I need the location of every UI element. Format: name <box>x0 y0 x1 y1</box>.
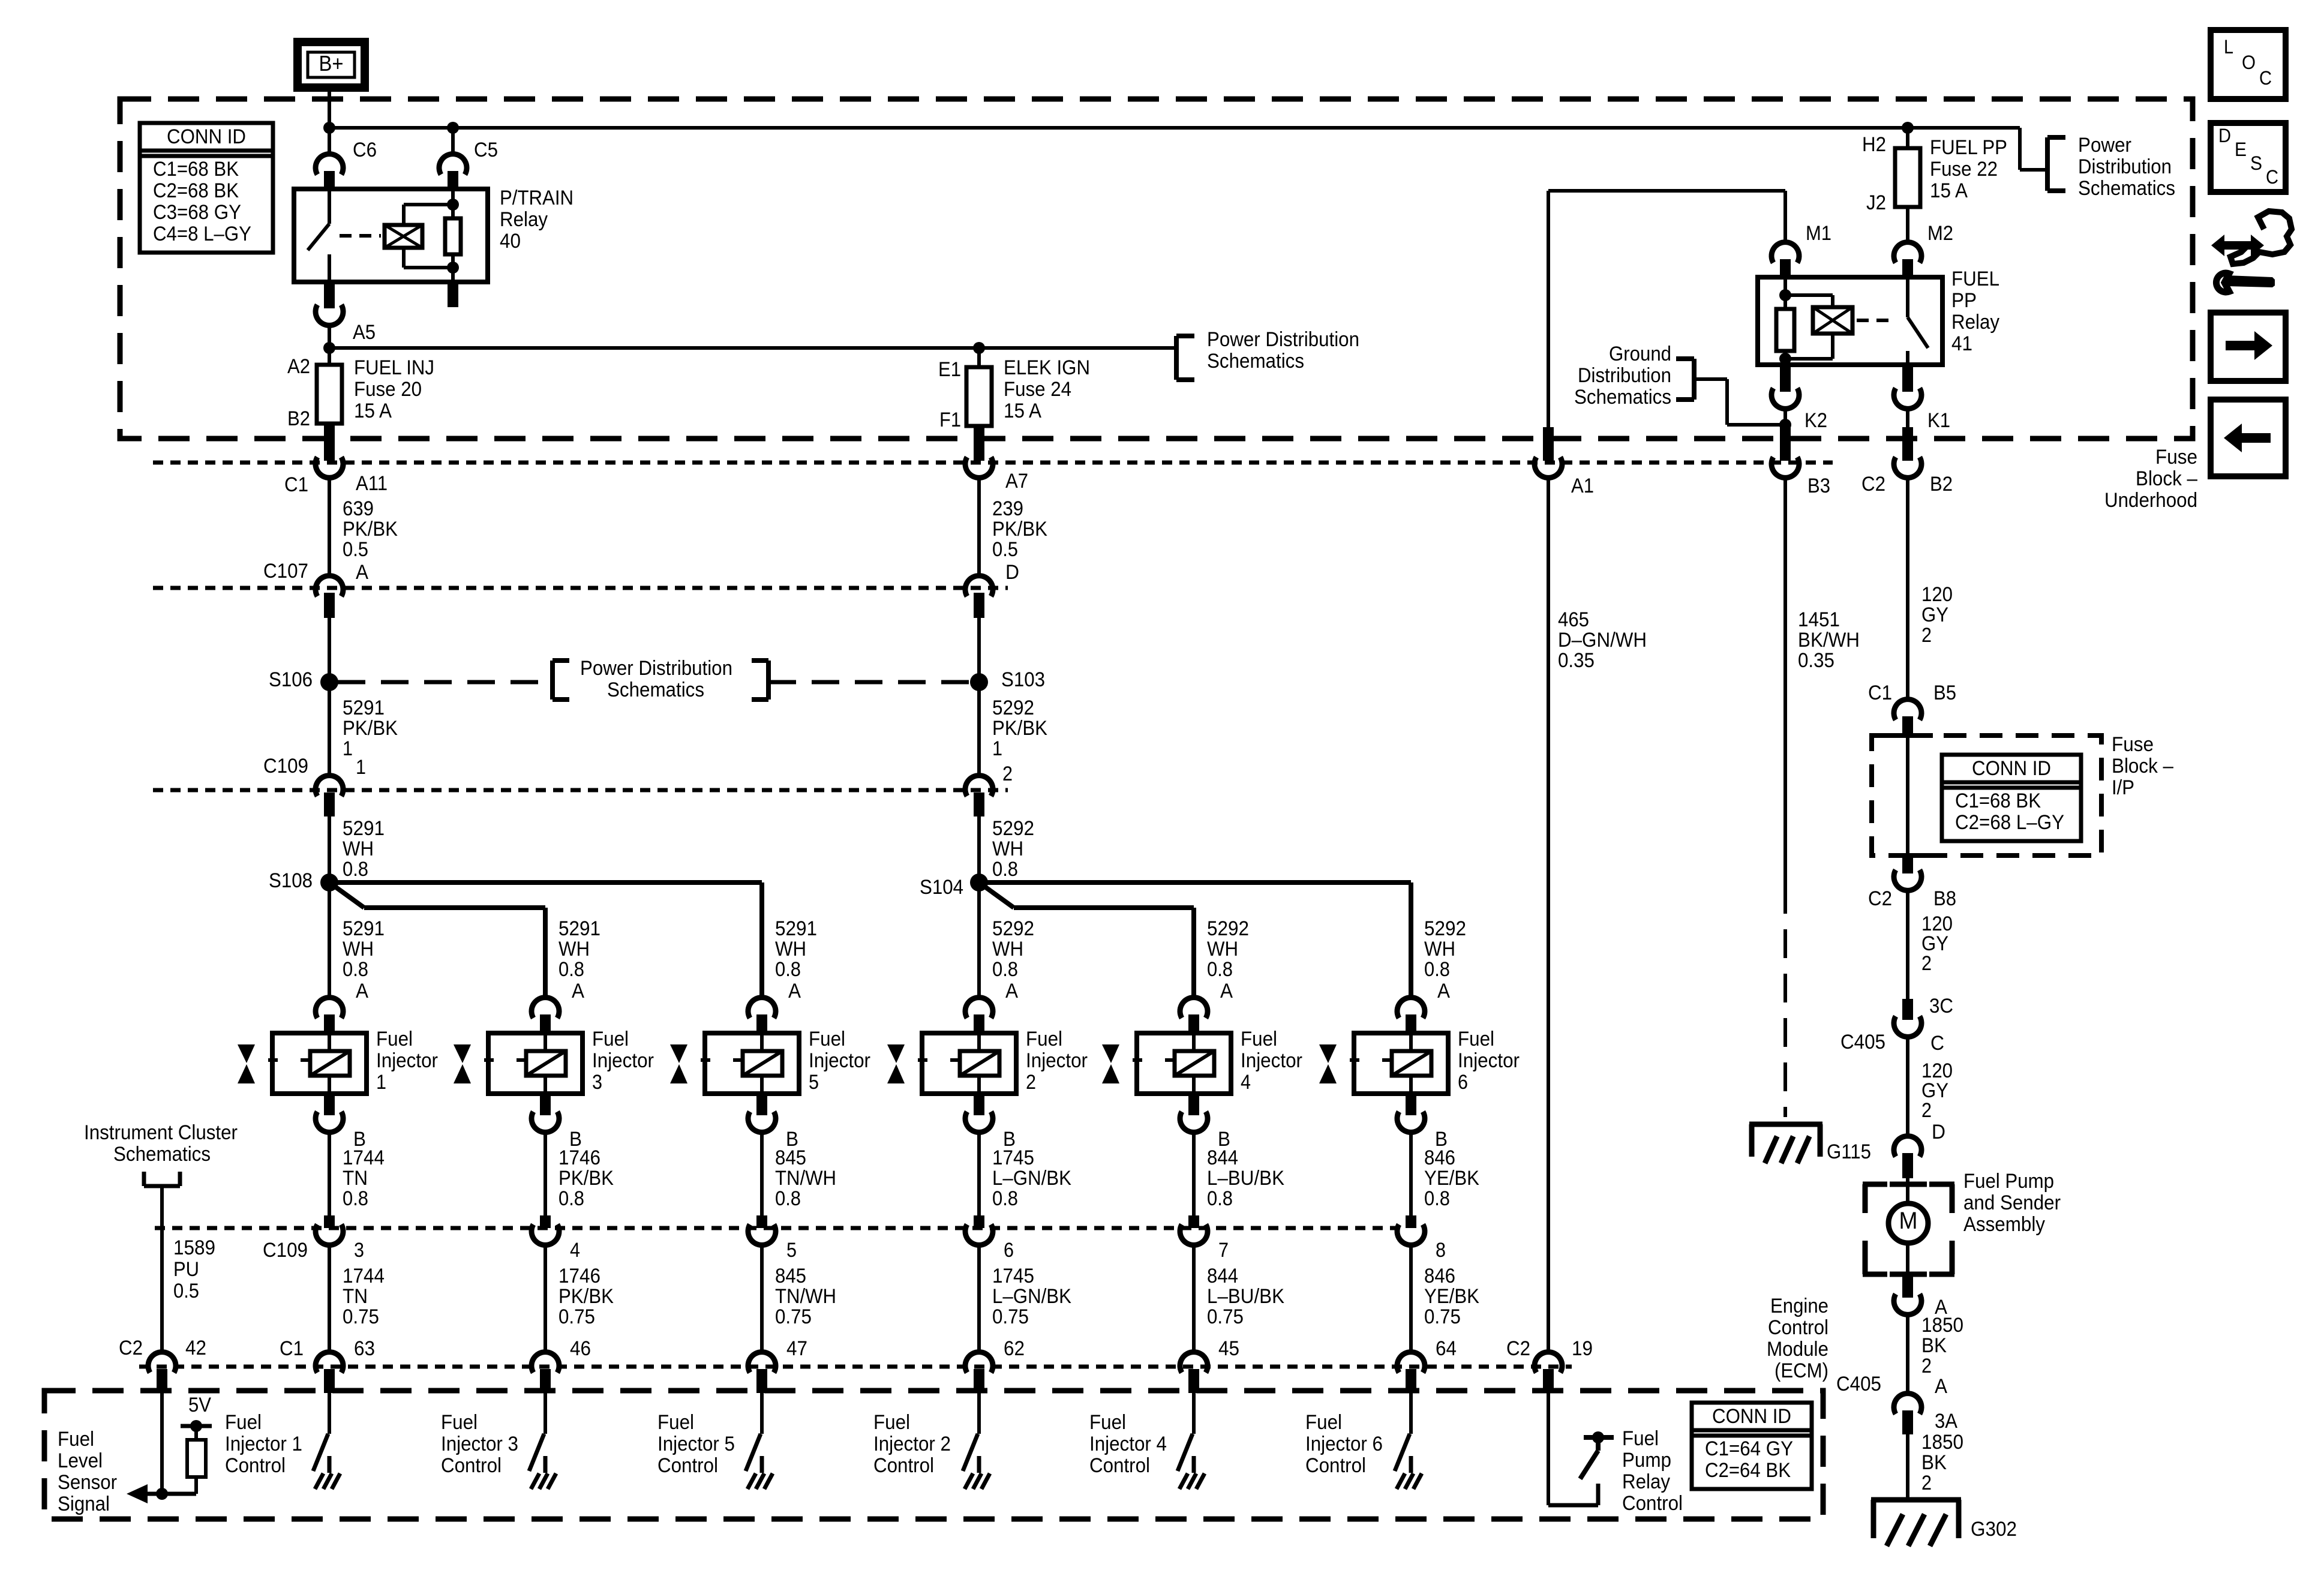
svg-text:0.8: 0.8 <box>343 1187 368 1210</box>
svg-text:C107: C107 <box>263 560 308 583</box>
svg-text:5291: 5291 <box>559 917 600 940</box>
svg-text:15 A: 15 A <box>1930 179 1968 202</box>
svg-text:D: D <box>1932 1121 1945 1143</box>
svg-text:O: O <box>2242 52 2256 73</box>
svg-text:Relay: Relay <box>1622 1470 1670 1493</box>
svg-text:0.8: 0.8 <box>1424 1187 1450 1210</box>
svg-text:Injector: Injector <box>376 1049 438 1072</box>
svg-text:Control: Control <box>1305 1454 1366 1477</box>
svg-text:FUEL INJ: FUEL INJ <box>354 356 434 379</box>
svg-text:S: S <box>2250 152 2262 174</box>
svg-text:Control: Control <box>441 1454 502 1477</box>
svg-text:1744: 1744 <box>343 1146 385 1169</box>
svg-text:PP: PP <box>1951 289 1977 312</box>
svg-text:M2: M2 <box>1927 222 1953 245</box>
svg-text:Schematics: Schematics <box>607 679 704 701</box>
svg-text:0.8: 0.8 <box>559 1187 584 1210</box>
svg-text:I/P: I/P <box>2112 776 2134 799</box>
svg-text:3: 3 <box>354 1239 364 1262</box>
svg-text:ELEK IGN: ELEK IGN <box>1004 356 1090 379</box>
svg-text:0.8: 0.8 <box>1207 958 1233 981</box>
svg-text:Engine: Engine <box>1770 1295 1828 1317</box>
svg-text:Control: Control <box>873 1454 934 1477</box>
svg-text:7: 7 <box>1218 1239 1229 1262</box>
svg-text:5: 5 <box>786 1239 797 1262</box>
svg-text:A: A <box>1220 980 1233 1002</box>
svg-text:844: 844 <box>1207 1265 1238 1287</box>
svg-text:Fuel: Fuel <box>1089 1411 1126 1434</box>
svg-text:1589: 1589 <box>173 1236 215 1259</box>
svg-text:P/TRAIN: P/TRAIN <box>500 187 574 209</box>
svg-text:Injector 3: Injector 3 <box>441 1433 518 1455</box>
svg-text:Schematics: Schematics <box>2078 177 2175 200</box>
svg-text:C1=64 GY: C1=64 GY <box>1705 1437 1793 1460</box>
svg-text:A11: A11 <box>356 472 388 495</box>
svg-text:19: 19 <box>1572 1337 1593 1360</box>
svg-text:S103: S103 <box>1001 668 1045 691</box>
svg-text:Injector: Injector <box>809 1049 870 1072</box>
svg-text:Injector: Injector <box>1241 1049 1302 1072</box>
svg-text:5291: 5291 <box>343 697 385 719</box>
svg-text:C: C <box>2266 166 2278 188</box>
svg-text:0.5: 0.5 <box>343 538 368 561</box>
svg-text:C1: C1 <box>1868 682 1892 704</box>
svg-text:45: 45 <box>1218 1337 1239 1360</box>
svg-text:Fuel: Fuel <box>58 1428 94 1451</box>
svg-text:C5: C5 <box>474 139 498 161</box>
svg-text:TN/WH: TN/WH <box>775 1167 836 1190</box>
svg-text:41: 41 <box>1951 332 1972 355</box>
svg-text:0.75: 0.75 <box>992 1305 1029 1328</box>
svg-text:C2: C2 <box>1506 1337 1530 1360</box>
svg-text:0.75: 0.75 <box>775 1305 812 1328</box>
svg-text:Control: Control <box>1768 1316 1828 1339</box>
svg-text:K1: K1 <box>1927 409 1950 432</box>
svg-text:5292: 5292 <box>1207 917 1249 940</box>
svg-text:Power Distribution: Power Distribution <box>1207 328 1359 351</box>
svg-text:2: 2 <box>1921 1099 1932 1122</box>
svg-text:40: 40 <box>500 230 521 253</box>
svg-text:15 A: 15 A <box>1004 400 1041 422</box>
svg-text:C109: C109 <box>263 1239 308 1262</box>
svg-text:G302: G302 <box>1971 1518 2017 1541</box>
svg-text:E: E <box>2235 139 2247 160</box>
svg-text:K2: K2 <box>1804 409 1827 432</box>
svg-text:0.8: 0.8 <box>992 958 1018 981</box>
svg-text:Fuel: Fuel <box>809 1028 845 1050</box>
svg-text:846: 846 <box>1424 1265 1455 1287</box>
svg-text:M1: M1 <box>1806 222 1831 245</box>
svg-text:120: 120 <box>1921 583 1953 606</box>
svg-text:6: 6 <box>1458 1071 1468 1094</box>
svg-text:844: 844 <box>1207 1146 1238 1169</box>
svg-text:WH: WH <box>992 837 1023 860</box>
svg-text:Block –: Block – <box>2112 755 2173 778</box>
svg-text:0.35: 0.35 <box>1558 649 1595 672</box>
svg-text:Fuel: Fuel <box>225 1411 262 1434</box>
svg-text:WH: WH <box>1424 938 1455 960</box>
svg-text:TN: TN <box>343 1285 368 1308</box>
svg-text:2: 2 <box>1921 624 1932 647</box>
svg-text:FUEL: FUEL <box>1951 268 1999 290</box>
svg-text:Distribution: Distribution <box>1578 364 1671 387</box>
svg-text:Pump: Pump <box>1622 1449 1671 1472</box>
svg-text:C109: C109 <box>263 755 308 778</box>
svg-text:846: 846 <box>1424 1146 1455 1169</box>
svg-text:L–BU/BK: L–BU/BK <box>1207 1285 1284 1308</box>
svg-text:H2: H2 <box>1862 133 1886 156</box>
svg-text:A: A <box>788 980 801 1002</box>
svg-text:1850: 1850 <box>1921 1431 1963 1454</box>
svg-text:YE/BK: YE/BK <box>1424 1167 1479 1190</box>
svg-text:1745: 1745 <box>992 1146 1034 1169</box>
svg-text:C1=68 BK: C1=68 BK <box>1955 789 2041 812</box>
svg-text:42: 42 <box>185 1337 206 1359</box>
svg-text:WH: WH <box>559 938 590 960</box>
svg-text:0.8: 0.8 <box>992 1187 1018 1210</box>
svg-text:C1=68 BK: C1=68 BK <box>153 158 239 181</box>
svg-text:Injector 1: Injector 1 <box>225 1433 302 1455</box>
svg-text:S106: S106 <box>269 668 313 691</box>
svg-text:3A: 3A <box>1935 1410 1957 1433</box>
svg-text:J2: J2 <box>1866 191 1886 214</box>
svg-text:WH: WH <box>343 837 374 860</box>
svg-text:2: 2 <box>1002 763 1013 785</box>
svg-text:S108: S108 <box>269 869 313 892</box>
svg-text:239: 239 <box>992 497 1023 520</box>
svg-text:CONN ID: CONN ID <box>167 125 246 148</box>
svg-text:Fuel: Fuel <box>376 1028 413 1050</box>
svg-text:Distribution: Distribution <box>2078 155 2172 178</box>
svg-text:Signal: Signal <box>58 1493 110 1515</box>
svg-text:0.5: 0.5 <box>173 1280 199 1302</box>
svg-text:E1: E1 <box>938 358 961 381</box>
svg-text:A: A <box>572 980 584 1002</box>
svg-text:A: A <box>1437 980 1450 1002</box>
svg-text:C405: C405 <box>1840 1031 1885 1053</box>
svg-text:YE/BK: YE/BK <box>1424 1285 1479 1308</box>
svg-text:WH: WH <box>1207 938 1238 960</box>
svg-text:WH: WH <box>992 938 1023 960</box>
svg-text:639: 639 <box>343 497 374 520</box>
svg-text:A7: A7 <box>1005 470 1028 493</box>
svg-text:PK/BK: PK/BK <box>343 518 398 541</box>
svg-text:8: 8 <box>1436 1239 1446 1262</box>
svg-text:D: D <box>2218 125 2231 146</box>
svg-text:2: 2 <box>1921 1355 1932 1377</box>
svg-text:Control: Control <box>225 1454 286 1477</box>
svg-text:Control: Control <box>657 1454 718 1477</box>
svg-text:M: M <box>1899 1208 1918 1234</box>
svg-text:1746: 1746 <box>559 1146 600 1169</box>
svg-text:6: 6 <box>1004 1239 1014 1262</box>
svg-text:C2=64 BK: C2=64 BK <box>1705 1459 1791 1482</box>
svg-text:5292: 5292 <box>992 697 1034 719</box>
svg-text:Assembly: Assembly <box>1963 1213 2045 1236</box>
svg-text:Underhood: Underhood <box>2104 489 2197 512</box>
svg-text:(ECM): (ECM) <box>1774 1359 1828 1382</box>
svg-text:15 A: 15 A <box>354 400 392 422</box>
svg-text:46: 46 <box>570 1337 591 1360</box>
svg-text:PK/BK: PK/BK <box>559 1167 614 1190</box>
svg-text:465: 465 <box>1558 608 1589 631</box>
svg-text:Power Distribution: Power Distribution <box>580 657 732 680</box>
svg-text:Fuel: Fuel <box>1458 1028 1494 1050</box>
svg-text:62: 62 <box>1004 1337 1025 1360</box>
svg-text:Fuel: Fuel <box>1241 1028 1277 1050</box>
svg-text:Fuse 22: Fuse 22 <box>1930 158 1998 181</box>
svg-text:C3=68 GY: C3=68 GY <box>153 201 241 224</box>
svg-text:Module: Module <box>1767 1338 1828 1361</box>
svg-text:Fuse: Fuse <box>2155 446 2197 469</box>
svg-text:FUEL PP: FUEL PP <box>1930 136 2007 159</box>
svg-text:A1: A1 <box>1571 475 1594 497</box>
svg-text:TN: TN <box>343 1167 368 1190</box>
svg-text:0.8: 0.8 <box>1207 1187 1233 1210</box>
svg-text:Fuel: Fuel <box>1026 1028 1062 1050</box>
svg-text:C: C <box>2259 67 2272 89</box>
svg-text:F1: F1 <box>939 409 961 431</box>
svg-text:G115: G115 <box>1827 1140 1871 1163</box>
svg-text:5292: 5292 <box>992 917 1034 940</box>
svg-text:L–GN/BK: L–GN/BK <box>992 1285 1071 1308</box>
svg-text:A: A <box>1935 1375 1947 1398</box>
svg-text:Level: Level <box>58 1449 103 1472</box>
svg-text:C2: C2 <box>119 1337 143 1359</box>
svg-text:0.75: 0.75 <box>559 1305 595 1328</box>
svg-text:845: 845 <box>775 1265 806 1287</box>
svg-text:4: 4 <box>1241 1071 1251 1094</box>
svg-text:1744: 1744 <box>343 1265 385 1287</box>
svg-text:D: D <box>1005 561 1019 584</box>
svg-text:1745: 1745 <box>992 1265 1034 1287</box>
svg-text:C2=68 L–GY: C2=68 L–GY <box>1955 811 2064 834</box>
svg-text:845: 845 <box>775 1146 806 1169</box>
svg-text:Fuel: Fuel <box>592 1028 629 1050</box>
svg-text:L–GN/BK: L–GN/BK <box>992 1167 1071 1190</box>
svg-text:B2: B2 <box>1930 473 1953 496</box>
svg-text:PK/BK: PK/BK <box>992 518 1047 541</box>
svg-text:0.8: 0.8 <box>775 958 801 981</box>
svg-text:BK: BK <box>1921 1334 1947 1357</box>
svg-text:0.8: 0.8 <box>343 958 368 981</box>
svg-text:WH: WH <box>775 938 806 960</box>
svg-text:Fuel: Fuel <box>1305 1411 1342 1434</box>
svg-text:4: 4 <box>570 1239 580 1262</box>
svg-text:Fuel: Fuel <box>1622 1427 1659 1450</box>
svg-text:2: 2 <box>1026 1071 1036 1094</box>
svg-text:C1: C1 <box>280 1337 304 1360</box>
svg-text:0.8: 0.8 <box>992 858 1018 881</box>
svg-text:1: 1 <box>376 1071 386 1094</box>
svg-text:0.8: 0.8 <box>343 858 368 881</box>
svg-text:1746: 1746 <box>559 1265 600 1287</box>
svg-text:2: 2 <box>1921 1472 1932 1494</box>
svg-text:C: C <box>1930 1032 1944 1055</box>
svg-text:Injector 4: Injector 4 <box>1089 1433 1167 1455</box>
svg-text:Sensor: Sensor <box>58 1471 117 1494</box>
svg-text:1: 1 <box>356 756 366 779</box>
svg-text:5292: 5292 <box>992 817 1034 840</box>
svg-text:47: 47 <box>786 1337 807 1360</box>
svg-text:Control: Control <box>1089 1454 1150 1477</box>
svg-text:A2: A2 <box>287 355 310 378</box>
svg-text:1: 1 <box>992 737 1002 760</box>
svg-text:Relay: Relay <box>1951 311 1999 334</box>
svg-text:5: 5 <box>809 1071 819 1094</box>
svg-text:C2: C2 <box>1868 887 1892 910</box>
svg-text:Injector: Injector <box>1458 1049 1520 1072</box>
svg-text:WH: WH <box>343 938 374 960</box>
svg-text:Fuel: Fuel <box>873 1411 910 1434</box>
svg-text:Relay: Relay <box>500 208 548 231</box>
svg-text:C1: C1 <box>284 473 308 496</box>
svg-text:B2: B2 <box>287 407 310 430</box>
svg-text:A: A <box>356 561 368 584</box>
svg-text:A: A <box>356 980 368 1002</box>
svg-text:1451: 1451 <box>1798 608 1840 631</box>
svg-text:Fuse 24: Fuse 24 <box>1004 378 1071 401</box>
svg-text:PK/BK: PK/BK <box>992 717 1047 740</box>
svg-text:Fuel: Fuel <box>441 1411 478 1434</box>
svg-text:Injector: Injector <box>1026 1049 1088 1072</box>
svg-text:0.8: 0.8 <box>559 958 584 981</box>
svg-text:0.5: 0.5 <box>992 538 1018 561</box>
svg-text:Fuel: Fuel <box>657 1411 694 1434</box>
svg-text:Injector 5: Injector 5 <box>657 1433 735 1455</box>
svg-text:PK/BK: PK/BK <box>343 717 398 740</box>
svg-text:1: 1 <box>343 737 353 760</box>
svg-text:Fuel Pump: Fuel Pump <box>1963 1170 2054 1193</box>
svg-text:2: 2 <box>1921 952 1932 975</box>
svg-text:5292: 5292 <box>1424 917 1466 940</box>
svg-text:S104: S104 <box>920 876 963 899</box>
svg-text:C4=8 L–GY: C4=8 L–GY <box>153 223 251 245</box>
svg-text:1850: 1850 <box>1921 1314 1963 1337</box>
svg-text:L: L <box>2224 36 2233 58</box>
svg-text:0.35: 0.35 <box>1798 649 1834 672</box>
svg-text:Injector 2: Injector 2 <box>873 1433 951 1455</box>
svg-text:C405: C405 <box>1836 1373 1881 1395</box>
svg-text:64: 64 <box>1436 1337 1457 1360</box>
svg-text:Power: Power <box>2078 134 2131 157</box>
svg-text:PK/BK: PK/BK <box>559 1285 614 1308</box>
svg-text:C2: C2 <box>1861 473 1885 496</box>
svg-text:GY: GY <box>1921 604 1948 626</box>
svg-text:0.8: 0.8 <box>775 1187 801 1210</box>
svg-text:Schematics: Schematics <box>1574 386 1671 409</box>
svg-text:0.75: 0.75 <box>1207 1305 1244 1328</box>
svg-text:B8: B8 <box>1933 887 1956 910</box>
svg-text:Control: Control <box>1622 1492 1683 1515</box>
svg-text:B+: B+ <box>319 51 344 76</box>
svg-text:TN/WH: TN/WH <box>775 1285 836 1308</box>
svg-text:Instrument Cluster: Instrument Cluster <box>84 1121 238 1144</box>
svg-text:0.75: 0.75 <box>343 1305 379 1328</box>
svg-text:C6: C6 <box>353 139 377 161</box>
svg-text:5291: 5291 <box>343 917 385 940</box>
svg-text:PU: PU <box>173 1258 199 1281</box>
svg-text:L–BU/BK: L–BU/BK <box>1207 1167 1284 1190</box>
svg-text:A: A <box>1005 980 1018 1002</box>
svg-text:CONN ID: CONN ID <box>1972 757 2051 780</box>
svg-text:and Sender: and Sender <box>1963 1191 2061 1214</box>
svg-text:Injector 6: Injector 6 <box>1305 1433 1383 1455</box>
svg-text:Fuse: Fuse <box>2112 733 2154 756</box>
svg-text:CONN ID: CONN ID <box>1712 1405 1791 1428</box>
svg-text:Schematics: Schematics <box>1207 350 1304 373</box>
svg-text:0.75: 0.75 <box>1424 1305 1461 1328</box>
svg-text:A5: A5 <box>353 321 376 344</box>
svg-text:C2=68 BK: C2=68 BK <box>153 179 239 202</box>
svg-text:BK/WH: BK/WH <box>1798 629 1860 652</box>
svg-text:BK: BK <box>1921 1451 1947 1474</box>
svg-text:3: 3 <box>592 1071 602 1094</box>
svg-text:5291: 5291 <box>343 817 385 840</box>
svg-text:Injector: Injector <box>592 1049 654 1072</box>
svg-text:Fuse 20: Fuse 20 <box>354 378 422 401</box>
svg-text:B5: B5 <box>1933 682 1956 704</box>
svg-text:63: 63 <box>354 1337 375 1360</box>
svg-text:D–GN/WH: D–GN/WH <box>1558 629 1647 652</box>
svg-text:5291: 5291 <box>775 917 817 940</box>
svg-text:Block –: Block – <box>2136 467 2197 490</box>
svg-text:B3: B3 <box>1807 475 1830 497</box>
svg-text:0.8: 0.8 <box>1424 958 1450 981</box>
svg-text:Schematics: Schematics <box>113 1143 211 1166</box>
svg-text:5V: 5V <box>188 1394 211 1416</box>
svg-text:3C: 3C <box>1929 995 1953 1017</box>
svg-text:Ground: Ground <box>1609 343 1671 365</box>
